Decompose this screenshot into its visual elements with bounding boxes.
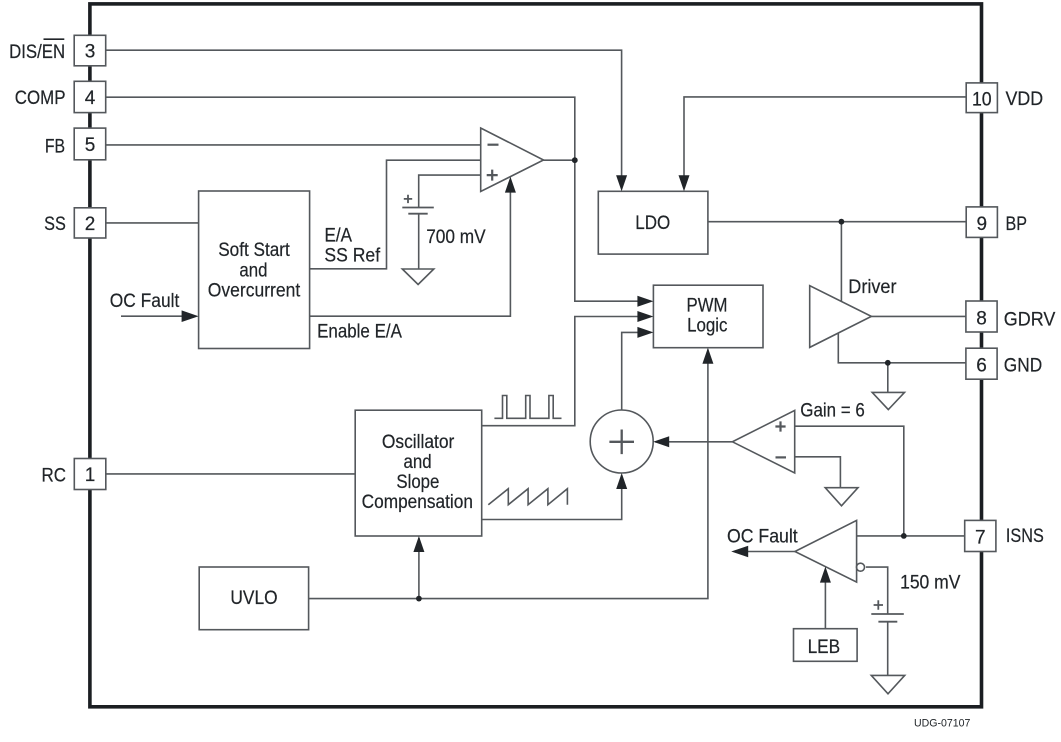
block UVLO — [199, 567, 308, 630]
svg-text:Overcurrent: Overcurrent — [208, 281, 301, 302]
op-amp U1 minus sign — [488, 144, 499, 146]
svg-text:Driver: Driver — [848, 277, 897, 298]
battery 700 mV reference — [402, 208, 434, 214]
svg-text:Oscillator: Oscillator — [382, 432, 455, 453]
battery 700 mV plus sign — [404, 195, 412, 203]
svg-text:PWM: PWM — [687, 296, 728, 317]
gain amp minus sign — [776, 456, 787, 458]
svg-text:OC Fault: OC Fault — [110, 291, 180, 312]
overline over EN — [44, 38, 65, 40]
svg-text:9: 9 — [977, 214, 988, 235]
op-amp U1 plus sign — [487, 170, 498, 181]
svg-text:150 mV: 150 mV — [900, 572, 961, 593]
svg-text:Logic: Logic — [687, 315, 727, 336]
wire pin7 ISNS to comparator — [857, 535, 966, 537]
block Oscillator and Slope Compensation — [355, 410, 482, 536]
wire E/A SS Ref from Soft Start to E/A — [310, 160, 481, 269]
svg-text:Gain = 6: Gain = 6 — [800, 400, 865, 421]
svg-text:4: 4 — [85, 88, 96, 109]
svg-text:ISNS: ISNS — [1006, 526, 1044, 547]
junction dot BP branch — [839, 219, 845, 225]
svg-text:Soft Start: Soft Start — [218, 240, 290, 261]
wire Oscillator pulse output to PWM input2 — [482, 317, 651, 426]
wire pin1 RC to Oscillator — [106, 473, 356, 475]
junction dot UVLO branch — [416, 596, 422, 602]
arrowhead PWM input1 — [637, 296, 653, 307]
junction dot ISNS branch — [901, 533, 907, 539]
pin 10 box — [966, 83, 997, 113]
driver U2 — [810, 286, 872, 348]
svg-text:Slope: Slope — [396, 472, 439, 493]
arrowhead OC Fault output — [731, 546, 748, 558]
waveform sawtooth glyph — [488, 489, 567, 505]
svg-text:Compensation: Compensation — [362, 492, 473, 513]
arrowhead PWM input2 — [637, 311, 653, 322]
wire comparator bubble to 150mV battery — [866, 567, 888, 614]
wire LDO output to pin9 BP — [708, 221, 966, 223]
gain amp plus sign — [775, 421, 785, 431]
summing junction plus sign — [609, 430, 634, 455]
svg-text:BP: BP — [1006, 214, 1028, 235]
svg-text:E/A: E/A — [325, 226, 353, 247]
block LDO — [598, 191, 708, 254]
svg-text:COMP: COMP — [15, 88, 66, 109]
wire UVLO branch to Oscillator — [418, 538, 420, 599]
amplifier Gain = 6 — [732, 410, 794, 473]
svg-text:1: 1 — [85, 465, 96, 486]
svg-text:LEB: LEB — [808, 637, 841, 658]
svg-text:SS Ref: SS Ref — [324, 245, 380, 266]
waveform pulse train glyph — [494, 396, 561, 419]
svg-text:2: 2 — [85, 214, 96, 235]
wire UVLO output to PWM Logic — [309, 350, 708, 599]
svg-text:FB: FB — [45, 137, 65, 158]
wire 700mV battery to ground — [418, 214, 420, 269]
svg-text:SS: SS — [44, 214, 66, 235]
block PWM Logic — [653, 285, 763, 348]
arrowhead LEB into comparator — [820, 567, 831, 583]
arrowhead PWM input3 — [637, 327, 653, 338]
svg-text:700 mV: 700 mV — [426, 227, 486, 248]
svg-text:and: and — [404, 452, 432, 473]
wire Driver to pin6 GND — [838, 333, 966, 363]
svg-text:and: and — [239, 260, 267, 281]
ground under 700 mV — [402, 269, 434, 285]
wire comparator output OC Fault — [748, 551, 795, 553]
svg-text:GDRV: GDRV — [1004, 309, 1056, 330]
pin 7 box — [965, 520, 996, 551]
arrowhead into summing junction bottom — [616, 473, 627, 489]
wire pin3 DIS/EN to LDO — [106, 50, 622, 178]
wire 150mV battery to ground — [887, 622, 889, 676]
wire summing junction output to PWM input3 — [622, 332, 651, 410]
block LEB — [794, 629, 858, 662]
wire pin10 VDD to LDO — [684, 97, 966, 178]
battery 150 mV reference — [871, 614, 904, 622]
svg-text:DIS/EN: DIS/EN — [9, 42, 65, 63]
svg-text:10: 10 — [972, 90, 992, 111]
wire Enable E/A from Soft Start to E/A — [310, 190, 511, 316]
wire pin5 FB to E/A inverting input — [106, 144, 481, 146]
arrowhead into summing junction right — [653, 436, 669, 447]
IC boundary border — [90, 4, 982, 707]
wire E/A output to junction — [544, 159, 575, 161]
arrowhead OC Fault into Soft Start — [182, 310, 199, 322]
pin 3 box — [74, 35, 106, 66]
wire pin4 COMP to E/A output and PWM input1 — [106, 97, 651, 301]
svg-text:8: 8 — [976, 308, 987, 329]
pin 6 box — [966, 348, 997, 379]
svg-text:UDG-07107: UDG-07107 — [914, 718, 970, 730]
ground at GND pin — [872, 392, 904, 409]
ground under 150 mV — [871, 675, 904, 693]
wire Gain amp + input to ISNS — [795, 426, 904, 536]
junction dot E/A output COMP — [572, 157, 578, 163]
arrowhead Enable E/A into op-amp — [505, 177, 516, 193]
wire OC Fault input to Soft Start — [121, 315, 184, 317]
svg-text:7: 7 — [975, 528, 986, 549]
pin 1 box — [74, 459, 106, 490]
arrowhead into LDO from VDD — [679, 175, 690, 191]
comparator inverting bubble — [857, 563, 865, 571]
battery 150 mV plus sign — [874, 600, 883, 609]
svg-text:OC Fault: OC Fault — [727, 526, 798, 547]
comparator overcurrent — [795, 520, 857, 582]
svg-text:RC: RC — [42, 465, 67, 486]
wire LEB to comparator — [824, 580, 826, 629]
arrowhead into PWM bottom from UVLO — [702, 348, 713, 364]
pin 4 box — [74, 81, 106, 112]
svg-text:3: 3 — [85, 42, 96, 63]
ground under gain amp — [825, 488, 858, 506]
arrowhead into LDO from DIS/EN — [616, 175, 627, 191]
wire Oscillator slope output to summing junction — [482, 475, 622, 520]
svg-text:5: 5 — [85, 135, 96, 156]
wire Driver output to pin8 GDRV — [871, 315, 966, 317]
pin 9 box — [966, 207, 997, 238]
wire pin2 SS to Soft Start — [106, 222, 199, 224]
svg-text:GND: GND — [1004, 356, 1042, 377]
wire Gain amp output to summing junction — [655, 441, 732, 443]
summing junction node — [590, 410, 653, 473]
pin 2 box — [74, 208, 106, 238]
svg-text:Enable E/A: Enable E/A — [317, 321, 402, 342]
svg-text:UVLO: UVLO — [230, 588, 277, 609]
wire BP branch to Driver supply — [840, 222, 842, 302]
svg-text:VDD: VDD — [1006, 89, 1044, 110]
svg-text:LDO: LDO — [635, 213, 670, 234]
pin 8 box — [966, 301, 997, 332]
junction dot GND branch — [885, 360, 891, 366]
wire Gain amp - input to ground — [795, 457, 841, 488]
pin 5 box — [74, 128, 106, 160]
block Soft Start and Overcurrent — [199, 191, 310, 349]
svg-text:6: 6 — [976, 356, 987, 377]
arrowhead into Oscillator from UVLO — [413, 536, 424, 552]
op-amp U1 error amplifier — [481, 128, 544, 192]
wire 700mV ref to E/A noninverting input — [419, 175, 481, 207]
wire GND junction stub to ground — [887, 363, 889, 393]
